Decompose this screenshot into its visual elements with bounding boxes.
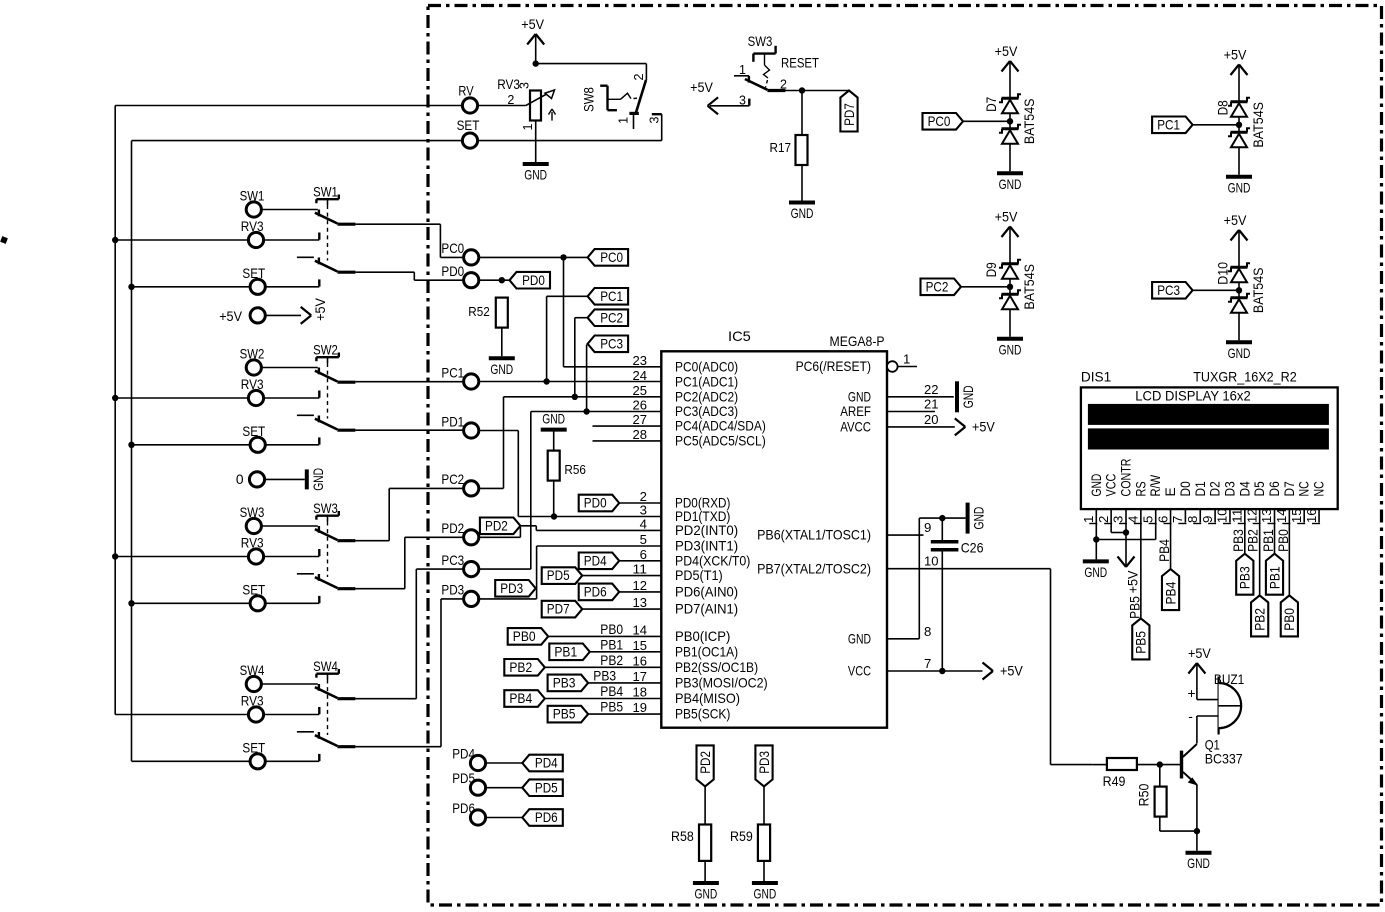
wire pin8 to GND: [887, 518, 966, 639]
LCD row 2 (black bar): [1088, 428, 1329, 449]
terminal RV3 (SW1 row): [241, 219, 264, 247]
wire PD0 flag to pin2: [619, 502, 661, 504]
junction D10 node: [1236, 287, 1242, 293]
wire RV3 to SW4 contact: [263, 714, 319, 716]
junction D7 node: [1007, 118, 1013, 124]
flag PD3 (R59): [755, 745, 772, 786]
LCD pin stubs: [1096, 509, 1319, 522]
wire D9 to GND: [1009, 309, 1011, 337]
IC5 left pin names and numbers: [633, 353, 768, 722]
svg-text:5: 5: [1140, 516, 1155, 523]
label D10: [1216, 262, 1231, 285]
svg-text:Q1: Q1: [1205, 738, 1220, 753]
svg-text:3: 3: [518, 82, 532, 89]
+5V symbol (buzzer): [1188, 646, 1212, 674]
svg-text:D8: D8: [1216, 100, 1231, 115]
wire PD0 to node: [479, 279, 510, 281]
wire D7 to GND: [1009, 144, 1011, 172]
svg-text:7: 7: [1170, 516, 1185, 523]
flag PD7 (reset): [840, 91, 857, 132]
svg-text:PB3: PB3: [553, 676, 576, 691]
svg-text:SW1: SW1: [313, 184, 338, 199]
svg-text:PB4: PB4: [509, 691, 532, 706]
wire +5V to D9: [1009, 229, 1011, 264]
ground (pin22): [957, 381, 976, 412]
wire PC2 to D9 node: [961, 286, 1010, 288]
svg-text:28: 28: [633, 427, 648, 442]
terminal RV3 (SW3 row): [241, 536, 264, 564]
junction LCD +5V node: [1123, 529, 1129, 535]
wire PC2 riser to flag: [575, 318, 588, 397]
svg-text:PB0(ICP): PB0(ICP): [675, 628, 730, 644]
net label PB4 (LCD): [1157, 539, 1172, 562]
svg-text:MEGA8-P: MEGA8-P: [830, 334, 885, 349]
svg-text:GND: GND: [999, 177, 1022, 192]
svg-text:PD3: PD3: [500, 581, 523, 596]
svg-text:R56: R56: [564, 462, 586, 477]
junction base node: [1157, 761, 1163, 767]
wire pin20 to +5V: [887, 426, 955, 428]
LCD module DIS1 titles: [1081, 370, 1297, 385]
terminal SET (SW2 row): [242, 424, 265, 452]
flag PB2 (LCD): [1251, 595, 1268, 636]
svg-text:PD6: PD6: [584, 585, 607, 600]
junction SET bus SW1: [128, 284, 134, 290]
wire node to C26: [941, 518, 943, 540]
svg-text:PD1: PD1: [441, 414, 464, 429]
flag PD7 (pin13): [542, 601, 583, 618]
junction SET bus SW3: [128, 600, 134, 606]
junction PC1 node: [543, 378, 549, 384]
wire SET terminal to bus: [132, 140, 463, 142]
svg-text:1: 1: [1081, 516, 1096, 523]
svg-text:GND: GND: [754, 887, 777, 902]
flag PB1 (LCD): [1266, 554, 1283, 595]
svg-text:-: -: [1188, 709, 1193, 724]
resistor R59: [730, 825, 770, 861]
wire SET bus to SET (SW3): [132, 602, 251, 604]
svg-text:PD7: PD7: [547, 602, 570, 617]
switch SW8: [582, 73, 662, 129]
flag PB2 (pin16): [504, 659, 545, 676]
svg-text:15: 15: [633, 638, 648, 653]
svg-text:RV3: RV3: [241, 694, 264, 709]
svg-text:GND: GND: [1228, 346, 1251, 361]
ground (R52): [489, 358, 515, 377]
flag PD4 (bottom): [522, 755, 563, 772]
svg-text:SW2: SW2: [240, 347, 265, 362]
svg-text:10: 10: [1215, 509, 1230, 524]
svg-text:PD7: PD7: [842, 103, 857, 126]
ground (D8): [1226, 177, 1252, 196]
svg-text:PD5: PD5: [535, 780, 558, 795]
svg-text:+5V: +5V: [1188, 646, 1212, 661]
wire LCD pin1/pin5 GND: [1096, 523, 1155, 560]
svg-text:PB2: PB2: [1246, 529, 1261, 552]
svg-text:4: 4: [1126, 516, 1141, 523]
net label PB5: [600, 700, 623, 715]
svg-text:R/W: R/W: [1148, 475, 1163, 497]
flag PB0 (pin14): [508, 628, 549, 645]
svg-text:PD2: PD2: [698, 751, 713, 774]
svg-text:PB1: PB1: [554, 644, 577, 659]
svg-text:+5V: +5V: [521, 17, 545, 32]
wire R52 to GND: [501, 328, 503, 357]
flag PB5 (LCD): [1132, 618, 1149, 659]
svg-text:18: 18: [633, 685, 648, 700]
ground (D9): [997, 339, 1023, 358]
svg-text:VCC: VCC: [848, 663, 871, 679]
svg-text:DIS1: DIS1: [1081, 370, 1111, 385]
wire LCD pin3 to +5V: [1125, 523, 1127, 566]
wire PD2 flag to pin4: [520, 526, 661, 531]
svg-text:D5: D5: [1252, 481, 1267, 496]
svg-text:GND: GND: [848, 388, 871, 404]
svg-text:PC0: PC0: [600, 250, 623, 265]
flag PD0 (net): [510, 272, 551, 289]
svg-text:PC5(ADC5/SCL): PC5(ADC5/SCL): [675, 433, 766, 449]
switch SW3: [297, 501, 356, 603]
wire R58 to GND: [704, 861, 706, 881]
svg-text:PB3: PB3: [1231, 529, 1246, 552]
svg-text:PB5: PB5: [553, 707, 576, 722]
wire pin1 stub: [898, 366, 917, 368]
svg-text:R49: R49: [1103, 774, 1126, 789]
wire SW3 pin2 to PD7 node: [785, 90, 849, 92]
flag PD5 (pin11): [542, 567, 583, 584]
svg-text:PB4: PB4: [1163, 581, 1178, 604]
svg-text:PB0: PB0: [1282, 608, 1297, 631]
net label PB1 (LCD): [1261, 529, 1276, 552]
svg-text:12: 12: [633, 578, 648, 593]
wire R49 wire: [1092, 764, 1107, 766]
wire D10 mid link: [1238, 282, 1240, 298]
wire RV to pot wiper: [477, 105, 525, 107]
svg-text:4: 4: [640, 516, 647, 531]
svg-text:LCD DISPLAY 16x2: LCD DISPLAY 16x2: [1135, 388, 1250, 403]
wire PC0 to node: [479, 256, 588, 258]
svg-text:SW8: SW8: [582, 87, 597, 112]
wire +5V to D8: [1238, 67, 1240, 102]
svg-text:8: 8: [1185, 516, 1200, 523]
svg-text:RV: RV: [458, 84, 474, 99]
junction emitter node: [1194, 828, 1200, 834]
wire LCD pin6 to PB4: [1170, 523, 1172, 570]
wire PC1 to pin24: [479, 381, 662, 383]
svg-text:SW1: SW1: [240, 189, 265, 204]
wire PB5 flag to pin19: [588, 713, 661, 715]
svg-text:PD5: PD5: [452, 771, 475, 786]
terminal PD5: [452, 771, 485, 795]
svg-text:PD6(AIN0): PD6(AIN0): [675, 584, 738, 600]
label BAT54S (D8): [1251, 102, 1266, 148]
svg-text:NC: NC: [1312, 481, 1327, 496]
+5V symbol (VCC): [983, 663, 1024, 680]
svg-text:D2: D2: [1208, 481, 1223, 496]
wire RV terminal to bus: [115, 105, 462, 107]
wire SET to SW8 pin3: [477, 114, 661, 140]
terminal SET (SW4 row): [242, 741, 265, 769]
wire D7 mid link: [1009, 113, 1011, 129]
svg-text:14: 14: [1274, 509, 1289, 524]
junction RV bus SW1: [112, 237, 118, 243]
svg-text:PD0: PD0: [522, 273, 545, 288]
wire PD2 flag to R58: [704, 786, 706, 824]
ground (LCD): [1083, 561, 1109, 580]
terminal PC0: [441, 241, 478, 265]
svg-text:PC3: PC3: [1157, 283, 1180, 298]
svg-text:6: 6: [640, 547, 647, 562]
svg-text:D0: D0: [1178, 481, 1193, 496]
svg-text:PD4: PD4: [584, 553, 607, 568]
flag PD5 (bottom): [522, 779, 563, 796]
svg-text:AVCC: AVCC: [840, 419, 871, 435]
ground (R59): [752, 883, 778, 902]
label BAT54S (D9): [1022, 264, 1037, 310]
svg-text:16: 16: [633, 653, 648, 668]
net label PB4: [600, 684, 623, 699]
wire SW3 pole2 to PD2: [355, 537, 463, 588]
switch SW1: [297, 184, 356, 286]
svg-text:PC3: PC3: [600, 336, 623, 351]
svg-text:D3: D3: [1222, 481, 1237, 496]
svg-text:SW3: SW3: [748, 34, 773, 49]
wire SW1 pole1 to PC0: [355, 224, 463, 257]
svg-text:1: 1: [616, 117, 630, 124]
wire PC1 to D8 node: [1193, 124, 1239, 126]
net label PB1: [600, 637, 623, 652]
wire PB4 flag to pin18: [545, 698, 662, 700]
flag PD4 (pin6): [579, 553, 620, 570]
diode D7 BAT54S: [999, 94, 1021, 144]
svg-text:SW3: SW3: [240, 505, 265, 520]
wire PC3 to pin26: [479, 412, 662, 570]
wire +5V to SW3 pin3: [710, 105, 749, 107]
wire SW4 pole2 to PD3: [355, 599, 463, 747]
wire PB2 flag to pin16: [545, 666, 662, 668]
switch SW4: [297, 659, 356, 761]
wire RV3 to SW2 contact: [263, 397, 319, 399]
terminal SET (top): [457, 118, 480, 148]
net label PB3: [593, 668, 616, 683]
svg-text:PB0: PB0: [1276, 529, 1291, 552]
svg-text:PD4: PD4: [535, 756, 558, 771]
LCD pin numbers and ticks: [1081, 509, 1320, 524]
svg-text:1: 1: [739, 63, 746, 77]
label D8: [1216, 100, 1231, 115]
wire LCD pin14 to PB0: [1288, 523, 1290, 596]
LCD pin names (rotated): [1089, 458, 1327, 496]
svg-text:PC0: PC0: [928, 114, 951, 129]
svg-text:PB2: PB2: [509, 660, 532, 675]
wire LCD pin12 to PB2: [1259, 523, 1261, 596]
wire +5V to pot junction: [535, 36, 537, 64]
ground (R17): [789, 203, 815, 222]
wire D8 mid link: [1238, 117, 1240, 133]
svg-text:D1: D1: [1193, 481, 1208, 496]
svg-text:8: 8: [924, 624, 931, 639]
wire PC3 to D10 node: [1193, 289, 1239, 291]
svg-text:PD2: PD2: [441, 521, 464, 536]
svg-text:BAT54S: BAT54S: [1251, 268, 1266, 314]
svg-text:PB1: PB1: [1261, 529, 1276, 552]
wire GND to R56: [553, 430, 555, 451]
svg-text:CONTR: CONTR: [1119, 458, 1134, 496]
wire PD1 to pin3: [479, 431, 662, 517]
svg-text:PB3(MOSI/OC2): PB3(MOSI/OC2): [675, 675, 768, 691]
flag PC2 (D9): [921, 279, 962, 296]
wire SW2 to pole1: [261, 367, 318, 369]
wire PD5 flag to pin11: [582, 575, 661, 577]
IC U-IC5 MEGA8-P body: [661, 329, 887, 728]
diode D8 BAT54S: [1228, 98, 1250, 148]
junction PD1/R56 node: [551, 513, 557, 519]
svg-text:PD2: PD2: [485, 518, 508, 533]
svg-text:GND: GND: [972, 507, 987, 530]
wire D10 to GND: [1238, 313, 1240, 341]
+5V symbol (LCD): [1118, 556, 1141, 593]
wire SET to SW3 contact: [265, 602, 319, 604]
wire SW3 pole1 to PC2: [355, 488, 463, 540]
svg-text:SW2: SW2: [313, 342, 338, 357]
svg-text:3: 3: [648, 116, 662, 123]
LCD row 1 (black bar): [1088, 404, 1329, 425]
net label PB3 (LCD): [1231, 529, 1246, 552]
terminal PD0: [441, 264, 478, 288]
junction D8 node: [1236, 122, 1242, 128]
ground (Q1): [1186, 853, 1212, 872]
flag PD3 (net): [495, 580, 536, 597]
junction PD0 node: [499, 277, 505, 283]
svg-text:3: 3: [640, 503, 647, 518]
svg-text:GND: GND: [524, 168, 547, 183]
wire reset node to R17: [801, 91, 803, 135]
svg-text:PB6(XTAL1/TOSC1): PB6(XTAL1/TOSC1): [757, 527, 871, 543]
wire PD5 to flag: [485, 787, 522, 789]
svg-text:26: 26: [633, 398, 648, 413]
flag PC1 (net): [588, 288, 629, 305]
terminal PC3: [441, 553, 478, 577]
wire RV3 to SW3 contact: [263, 556, 319, 558]
switch SW2: [297, 342, 356, 444]
svg-text:GND: GND: [791, 206, 814, 221]
svg-text:13: 13: [633, 595, 648, 610]
svg-text:0: 0: [236, 472, 244, 487]
wire R17 to GND: [801, 165, 803, 201]
svg-text:PB7(XTAL2/TOSC2): PB7(XTAL2/TOSC2): [757, 560, 871, 576]
resistor R58: [671, 825, 711, 861]
svg-text:6: 6: [1155, 516, 1170, 523]
flag PC0 (D7): [923, 113, 964, 130]
svg-text:PD6: PD6: [452, 801, 475, 816]
label BAT54S (D7): [1022, 99, 1037, 145]
svg-text:PC2: PC2: [926, 279, 949, 294]
wire SET bus to SET (SW2): [132, 444, 251, 446]
svg-text:20: 20: [924, 412, 939, 427]
svg-text:GND: GND: [1228, 180, 1251, 195]
wire SW3 to pole1: [261, 525, 318, 527]
net label PB5 (LCD): [1128, 596, 1143, 619]
terminal PD4: [452, 747, 485, 771]
svg-text:E: E: [1163, 487, 1178, 496]
ground (pin8/C26): [968, 503, 987, 534]
wire PB1 flag to pin15: [590, 651, 662, 653]
svg-text:PC3(ADC3): PC3(ADC3): [675, 403, 738, 419]
svg-text:2: 2: [632, 73, 646, 80]
IC5 pin1 inversion bubble: [887, 361, 898, 372]
wire SW1 pole2 to PD0: [355, 272, 463, 280]
terminal SW3: [240, 505, 265, 533]
svg-text:17: 17: [633, 669, 648, 684]
wire LCD pin13 to PB1: [1274, 523, 1276, 554]
wire pin10 to R49: [887, 569, 1092, 765]
svg-text:RS: RS: [1133, 481, 1148, 496]
wire PD7 flag to pin13: [582, 608, 661, 610]
svg-text:AREF: AREF: [840, 403, 871, 419]
flag PC2 (net): [588, 309, 629, 326]
svg-text:9: 9: [1200, 516, 1215, 523]
svg-text:PD3(INT1): PD3(INT1): [675, 538, 738, 554]
svg-text:GND: GND: [311, 468, 326, 491]
wire +5V to D10: [1238, 232, 1240, 267]
svg-text:R52: R52: [468, 304, 490, 319]
svg-text:R58: R58: [671, 829, 694, 844]
wire +5V to buzzer +: [1197, 665, 1219, 700]
svg-text:PD0: PD0: [584, 496, 607, 511]
wire PB3 flag to pin17: [588, 682, 661, 684]
svg-text:PB4: PB4: [1157, 539, 1172, 562]
wire SW4 pole1 to PC3: [355, 569, 463, 699]
svg-text:10: 10: [924, 554, 939, 569]
svg-text:25: 25: [633, 383, 648, 398]
wire buzzer - to collector: [1197, 716, 1219, 744]
wire D9 mid link: [1009, 279, 1011, 295]
+5V symbol (reset): [690, 80, 718, 114]
wire LCD pin4 to PB5: [1140, 523, 1142, 619]
svg-text:PB4: PB4: [600, 684, 623, 699]
terminal RV: [458, 84, 477, 114]
terminal +5V (left column): [219, 308, 265, 324]
svg-text:PB2(SS/OC1B): PB2(SS/OC1B): [675, 659, 758, 675]
junction RV bus SW2: [112, 395, 118, 401]
wire PC2 to pin25: [479, 397, 662, 489]
flag PC1 (D8): [1152, 117, 1193, 134]
schematic frame border: [428, 6, 1382, 906]
svg-text:PC1: PC1: [1157, 117, 1180, 132]
terminal PC2: [441, 472, 478, 496]
svg-text:PC3: PC3: [441, 553, 464, 568]
svg-text:GND: GND: [848, 630, 871, 646]
ground (R56): [541, 412, 567, 430]
svg-text:PB5: PB5: [600, 700, 623, 715]
net label PB2 (LCD): [1246, 529, 1261, 552]
svg-text:BC337: BC337: [1205, 752, 1243, 767]
svg-text:PB5(SCK): PB5(SCK): [675, 706, 730, 722]
svg-text:IC5: IC5: [728, 329, 751, 344]
wire SET to SW2 contact: [265, 444, 319, 446]
wire SW2 pole1 to PC1: [355, 381, 463, 383]
svg-text:7: 7: [924, 656, 931, 671]
terminal PD3: [441, 583, 478, 607]
svg-text:PD7(AIN1): PD7(AIN1): [675, 601, 738, 617]
flag PD6 (bottom): [522, 809, 563, 826]
+5V symbol (AVCC): [955, 418, 996, 435]
wire PD6 flag to pin12: [619, 591, 661, 593]
wire LCD pin11 to PB3: [1244, 523, 1246, 554]
svg-text:1: 1: [521, 123, 535, 130]
wire PD4 to flag: [485, 762, 522, 764]
ground (0 terminal): [307, 468, 326, 491]
